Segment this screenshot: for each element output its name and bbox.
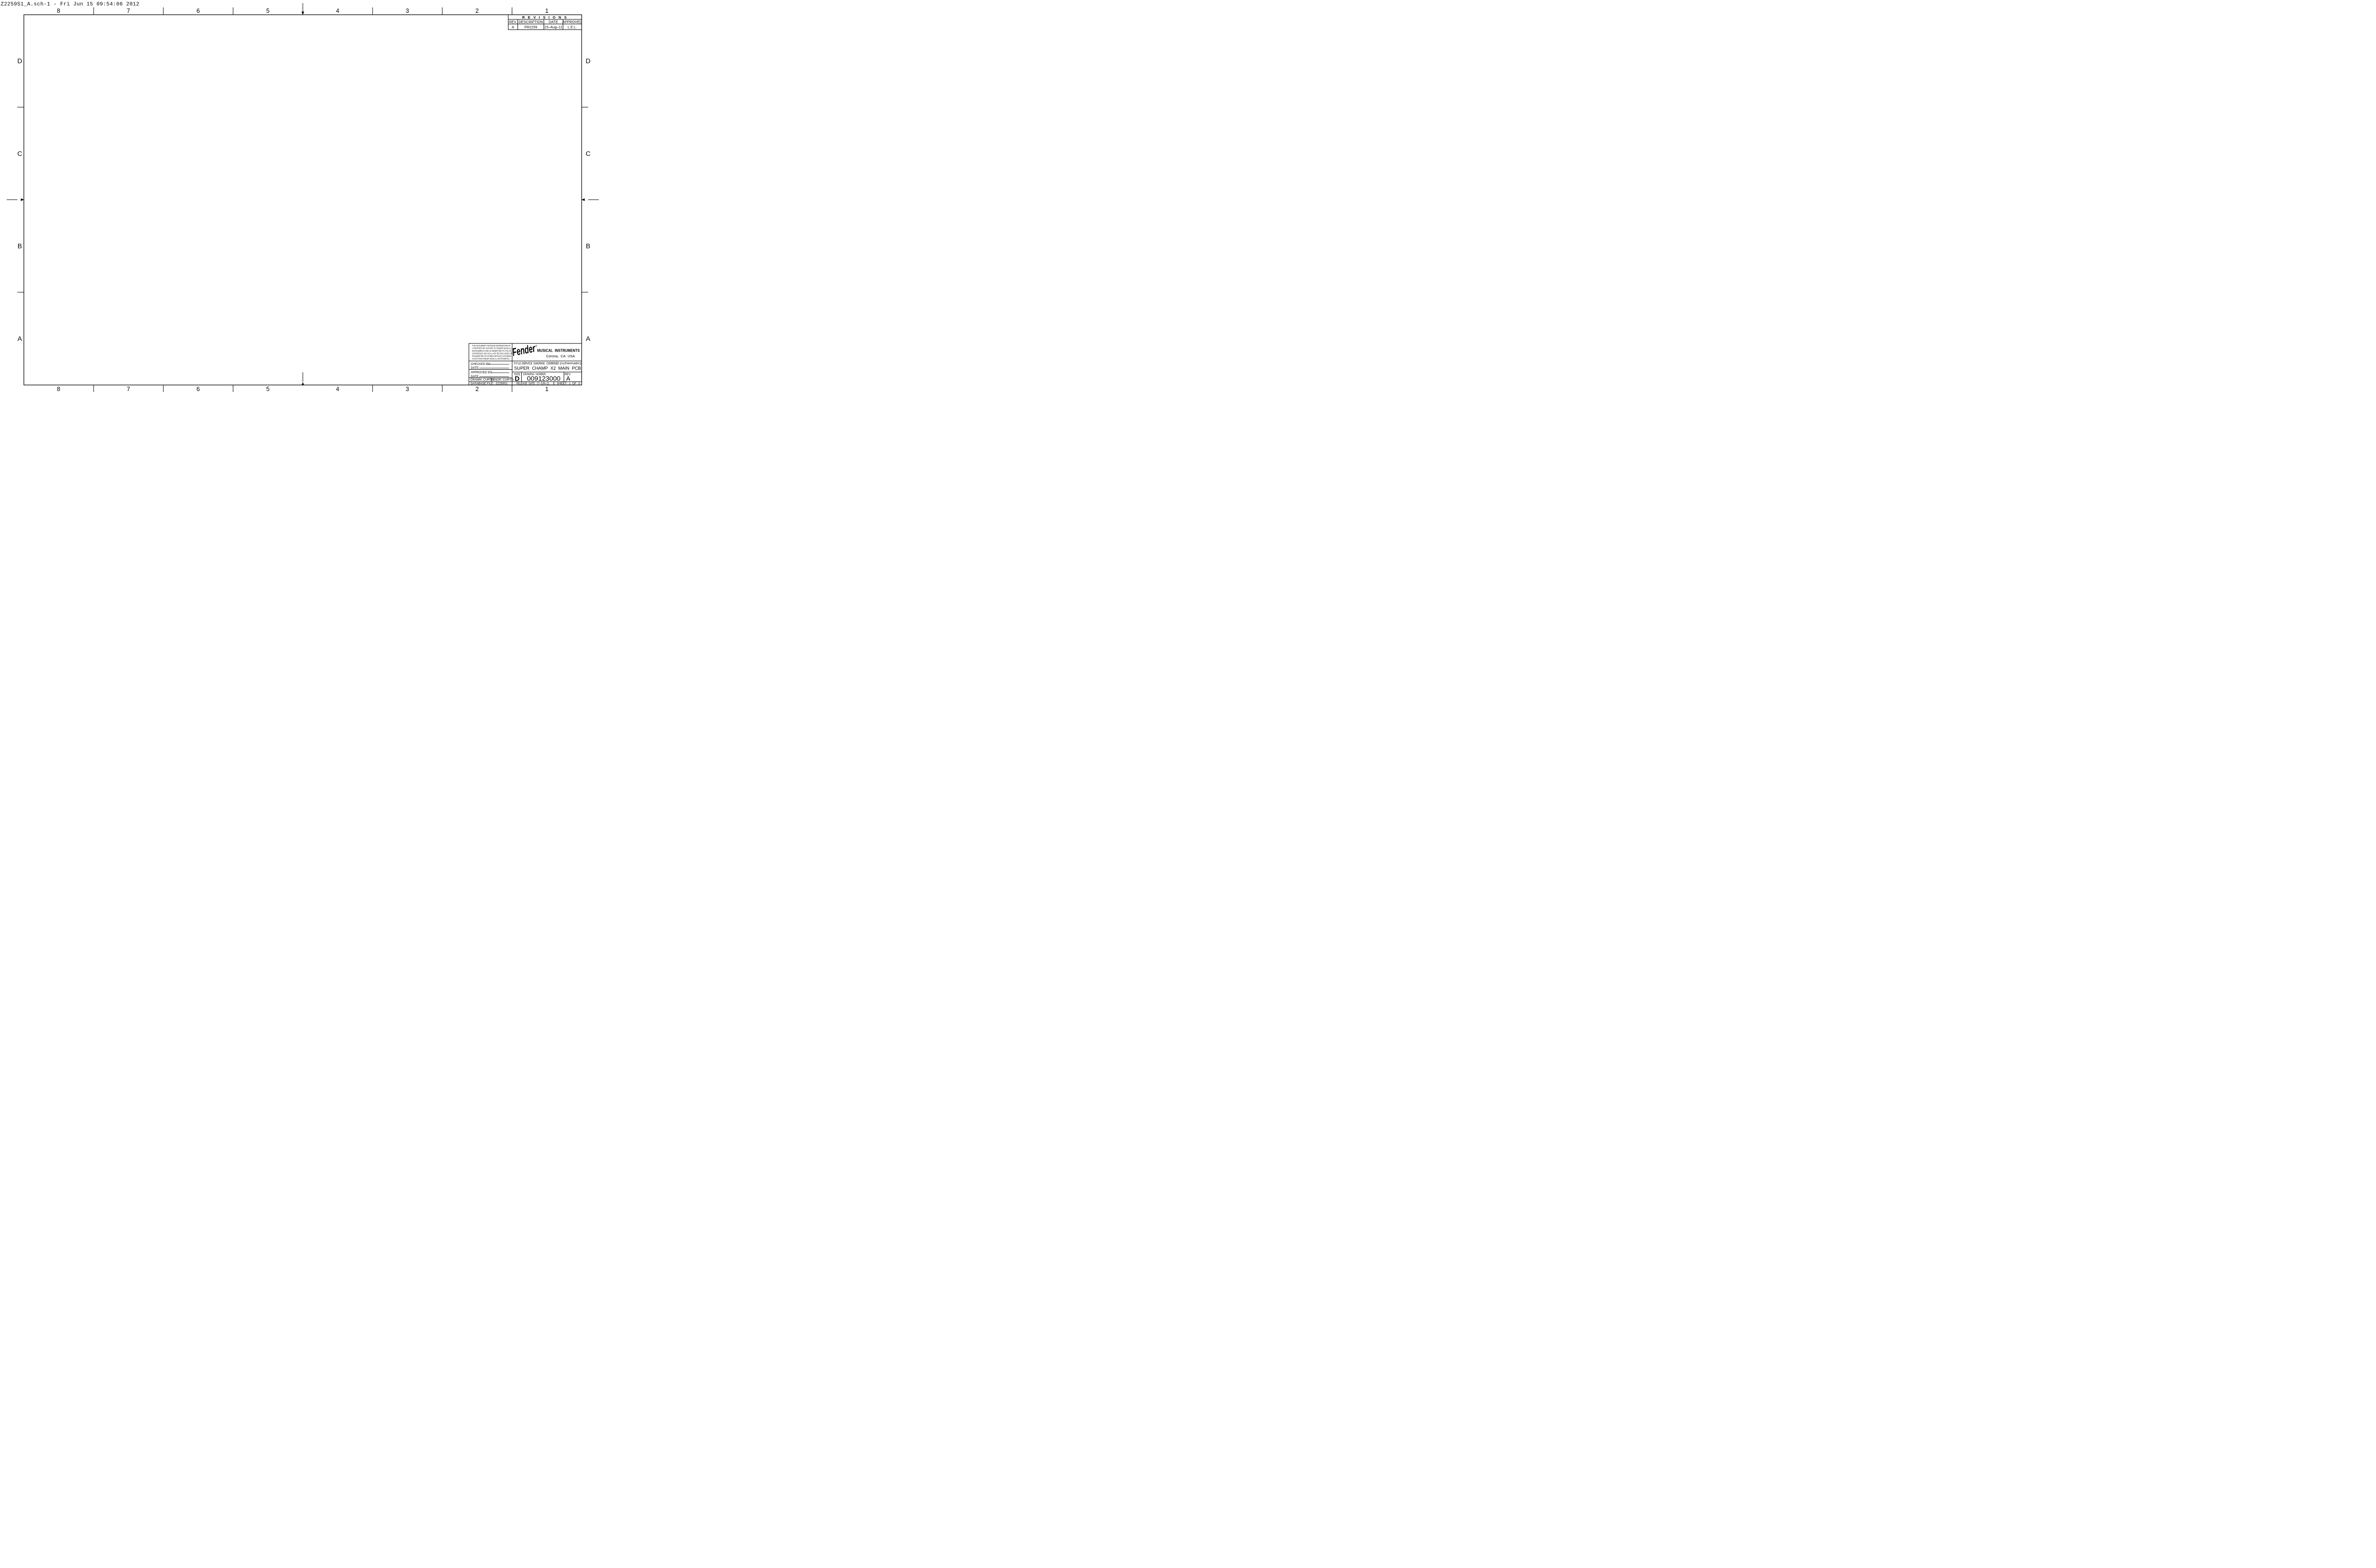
svg-text:6: 6 xyxy=(197,8,200,14)
svg-text:3: 3 xyxy=(406,8,409,14)
svg-text:4: 4 xyxy=(336,386,339,392)
svg-text:2: 2 xyxy=(476,8,479,14)
svg-text:DATABASE FILE: Z2259S1: DATABASE FILE: Z2259S1 xyxy=(471,382,508,385)
svg-text:5: 5 xyxy=(266,386,269,392)
svg-text:C: C xyxy=(585,150,590,157)
svg-text:L.E.L.: L.E.L. xyxy=(567,25,577,29)
svg-text:(schematic): (schematic) xyxy=(560,362,581,365)
svg-text:DATE:: DATE: xyxy=(471,366,479,370)
svg-text:Corona, CA USA: Corona, CA USA xyxy=(546,354,575,358)
svg-text:DATE:: DATE: xyxy=(471,375,479,378)
svg-text:CHECKED BY:: CHECKED BY: xyxy=(471,363,491,366)
svg-text:RELEASE DATE: 17–JUN–11: RELEASE DATE: 17–JUN–11 xyxy=(517,382,549,385)
svg-text:3: 3 xyxy=(406,386,409,392)
svg-text:1: 1 xyxy=(545,8,548,14)
svg-text:Z2259S1_A.sch-1 - Fri Jun 15 0: Z2259S1_A.sch-1 - Fri Jun 15 09:54:06 20… xyxy=(1,2,140,8)
svg-text:23–Aug–11: 23–Aug–11 xyxy=(545,25,563,29)
svg-text:CONFIDENCE AND SHALL NOT BE DI: CONFIDENCE AND SHALL NOT BE DISCLOSED OR xyxy=(472,353,512,355)
svg-text:8: 8 xyxy=(57,386,60,392)
svg-text:®: ® xyxy=(536,344,537,348)
svg-text:INSTRUMENTS AND IS SUBMITTED T: INSTRUMENTS AND IS SUBMITTED TO YOU IN xyxy=(472,350,511,353)
svg-text:SERVICE DIAGRAM, COMBINED: SERVICE DIAGRAM, COMBINED xyxy=(522,361,559,365)
svg-text:R E V I S I O N S: R E V I S I O N S xyxy=(522,15,568,19)
svg-text:6: 6 xyxy=(197,386,200,392)
svg-text:B: B xyxy=(18,242,22,250)
svg-text:SUPER CHAMP X2 MAIN PCB: SUPER CHAMP X2 MAIN PCB xyxy=(514,366,581,371)
svg-text:PR2259: PR2259 xyxy=(524,25,537,29)
svg-text:TRANSMITTED TO OTHERS WITHOUT: TRANSMITTED TO OTHERS WITHOUT AUTHORIZ– xyxy=(472,355,512,358)
svg-text:D: D xyxy=(515,375,519,382)
svg-text:2: 2 xyxy=(476,386,479,392)
svg-text:THIS DOCUMENT CONTAINS INFORMA: THIS DOCUMENT CONTAINS INFORMATION OF xyxy=(472,344,510,347)
svg-text:DESCRIPTION: DESCRIPTION xyxy=(518,19,543,24)
svg-text:A: A xyxy=(566,375,571,382)
svg-text:4: 4 xyxy=(336,8,339,14)
svg-text:C: C xyxy=(17,150,22,157)
svg-text:APPROVED BY:: APPROVED BY: xyxy=(471,371,493,374)
svg-text:ATION FROM FENDER MUSICAL INST: ATION FROM FENDER MUSICAL INSTRUMENTS. xyxy=(472,358,510,361)
svg-text:5: 5 xyxy=(266,8,269,14)
svg-text:B: B xyxy=(586,242,590,250)
svg-text:8: 8 xyxy=(57,8,60,14)
svg-text:1: 1 xyxy=(545,386,548,392)
svg-text:7: 7 xyxy=(127,8,130,14)
svg-text:DRAWN: CURTIS: DRAWN: CURTIS xyxy=(470,378,494,382)
svg-text:MUSICAL INSTRUMENTS: MUSICAL INSTRUMENTS xyxy=(537,348,580,353)
svg-text:APPROVED: APPROVED xyxy=(562,19,582,24)
svg-text:A: A xyxy=(512,25,514,29)
svg-text:A: A xyxy=(586,335,591,342)
svg-text:ENGR: CURTIS: ENGR: CURTIS xyxy=(493,378,514,382)
svg-text:D: D xyxy=(17,57,22,65)
svg-text:TITLE:: TITLE: xyxy=(514,363,522,365)
svg-text:A: A xyxy=(18,335,22,342)
svg-text:REV.: REV. xyxy=(509,19,517,24)
svg-text:7: 7 xyxy=(127,386,130,392)
svg-text:SHEET: 1 OF 3: SHEET: 1 OF 3 xyxy=(557,382,580,385)
svg-text:D: D xyxy=(585,57,590,65)
svg-text:A PROPRIETARY NATURE TO FENDER: A PROPRIETARY NATURE TO FENDER MUSICAL xyxy=(472,347,512,350)
svg-text:009123000: 009123000 xyxy=(527,375,561,382)
svg-text:DATE: DATE xyxy=(549,19,558,24)
